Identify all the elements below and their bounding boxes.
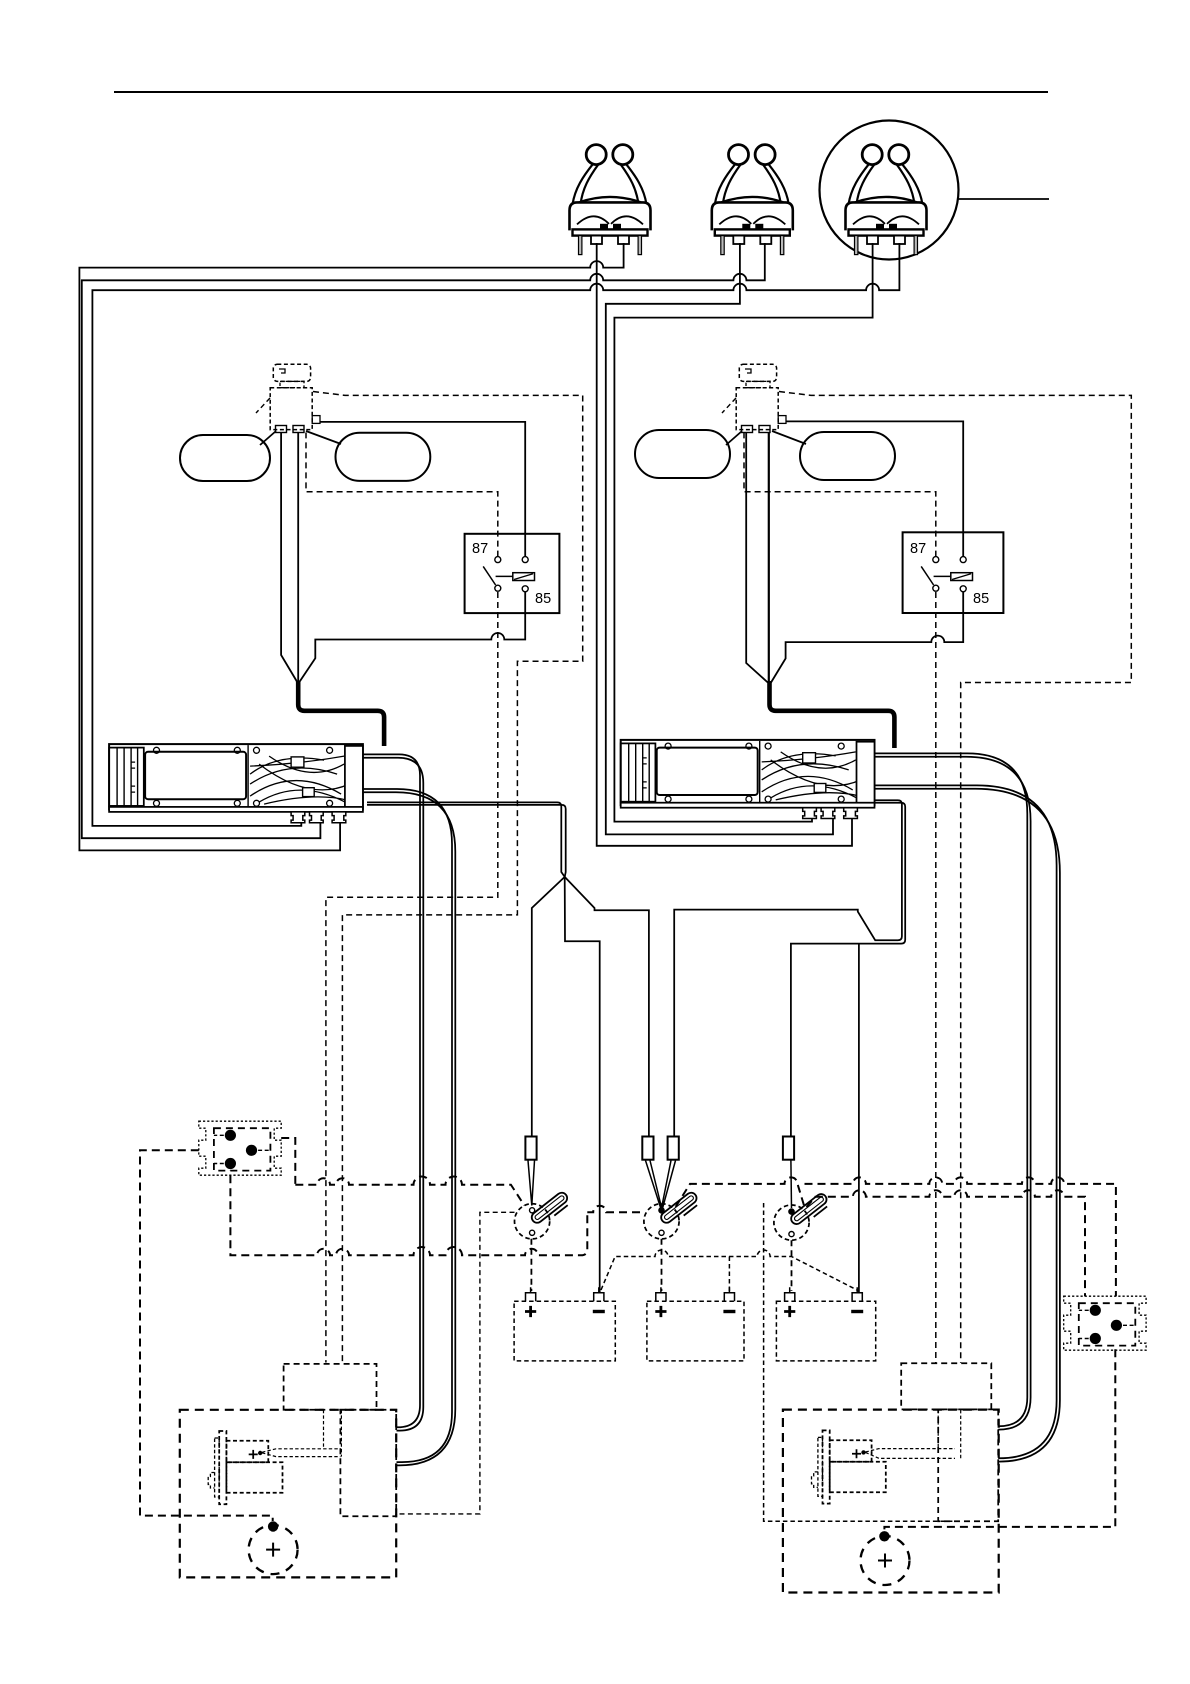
engine box (right) [783, 1410, 999, 1593]
connector X2 (right) feet [742, 426, 753, 433]
dashed wire: key switch 3 output to battery 3 plus [791, 1240, 793, 1291]
wire: connector lead 2 down to junction (right) [768, 433, 770, 685]
control station 2 [712, 145, 793, 255]
connector X2 (left) neck [280, 381, 304, 387]
wire: relay pin 85 down, left into harness junction (right) [771, 592, 963, 683]
interface box (left engine) [284, 1364, 377, 1410]
wire: control3 left leg via x=614.4 down to right actuator gland 1 [614, 243, 872, 822]
fuse holder block (helm, left) [199, 1121, 281, 1175]
battery 3 [776, 1287, 875, 1361]
cable pair A from right actuator to engine (x=1027.3/1030.6) [875, 753, 1028, 1426]
circled plus (left engine) [249, 1525, 298, 1574]
dashed riser: key switch 1 feed down to starter area [396, 1212, 514, 1514]
actuator unit (left engine) [109, 744, 363, 823]
wire: control3 right leg to left side loop (y=290.2 / x=92.4 / y=825.9) [92, 243, 899, 826]
dashed feed from left fuse block to engine positive (x=140) [140, 1150, 273, 1521]
dashed wire: key switch 2 output to battery 2 plus [661, 1239, 663, 1291]
dashed stub from connector top-left [256, 398, 270, 413]
page header rule [114, 91, 1048, 93]
thick harness cable into actuator (right) [770, 681, 895, 748]
starter motor (left engine) [208, 1431, 282, 1504]
supply pair from left actuator to Y-fork [367, 802, 565, 877]
wire: control1 left leg down between panels to right actuator gland 3 [597, 243, 852, 846]
wire: connector tab to relay pin 30 (right) [786, 421, 963, 556]
ignition bus 2: riser to key switch 2 [587, 1206, 645, 1213]
relay K2 pin 86 [933, 585, 939, 591]
svg-text:85: 85 [973, 591, 989, 607]
cable pair B from left actuator to engine (x=452/455.3) [363, 789, 452, 1462]
dashed wire: relay pin 87 up and to connector (right) [744, 433, 936, 557]
connector X2 (right) neck [746, 381, 770, 387]
Y-fork branch to key switch 1 [532, 877, 565, 1137]
lead from connector to left oval (right panel) [726, 431, 742, 445]
fuse F4 [783, 1137, 794, 1160]
actuator unit (right engine) [621, 740, 875, 819]
gauge cutout oval (left panel, left) [180, 435, 270, 481]
relay K2 arm link [934, 575, 951, 577]
dashed stub from connector top-left (right panel) [722, 398, 736, 413]
ignition bus 5: continuation over to right fuse block (top line) [805, 1177, 1116, 1296]
svg-text:87: 87 [472, 541, 488, 557]
callout circle around control 3 [820, 121, 959, 260]
relay K2 pin 87 [933, 557, 939, 563]
wire: connector tab to relay pin 30 [320, 422, 525, 557]
gauge cutout oval (right panel, right) [800, 432, 895, 480]
battery 2 [647, 1287, 744, 1361]
fuse F1 [525, 1137, 536, 1160]
wire: relay pin 85 down, left and into harness junction [300, 592, 526, 682]
lead from connector to left oval [260, 431, 276, 445]
dashed feed: right block bottom to right starter positive [884, 1349, 1115, 1531]
relay K1 pin 85 [522, 586, 528, 592]
svg-text:87: 87 [910, 541, 926, 557]
relay K2 coil [951, 573, 973, 581]
dashed wires: interface box to starter solenoid (right) [866, 1410, 961, 1458]
key switch 1 [515, 1191, 572, 1239]
gauge cutout oval (right panel, left) [635, 430, 730, 478]
Y-fork branch to battery 1 minus [565, 877, 600, 1292]
connector X2 (left) feet [276, 426, 287, 433]
connector X2 (right) right tab [778, 416, 786, 424]
dashed feed: left block bottom to starter area [230, 1175, 587, 1255]
dashed wires: interface box to starter solenoid (left) [262, 1410, 341, 1457]
dashed harness boundary loop (right panel) [779, 392, 1131, 1364]
fuse holder block (right) [1064, 1296, 1146, 1350]
key switch 2 [644, 1191, 701, 1239]
wire: fuses F2/F3 to key switch 2 [646, 1161, 676, 1209]
dashed wire: relay pin 86 down to engine box (right) [935, 592, 937, 1363]
relay K1 arm link [496, 575, 513, 577]
dashed harness boundary loop (left panel) [313, 392, 583, 1363]
relay K1 pin 86 [495, 585, 501, 591]
ignition bus 1: left block to key switch 1 [295, 1176, 524, 1205]
wire: fuse F4 to key switch 3 [790, 1161, 793, 1209]
wire: connector lead 1 down to junction (right) [746, 433, 768, 683]
battery positive node (right engine) [879, 1531, 889, 1541]
fuse F2 [642, 1137, 653, 1160]
dashed wire: relay pin 87 up and to connector [306, 433, 498, 557]
gauge cutout oval (left panel, right) [336, 433, 431, 481]
relay K2 pin 85 [960, 586, 966, 592]
battery positive node (left engine) [268, 1521, 278, 1531]
wire: control2 left leg via x=605.8 down to right actuator gland 2 [606, 243, 833, 834]
callout line from circle [958, 198, 1049, 200]
relay K1 pin 87 [495, 557, 501, 563]
wire: control1 right leg to left side loop (y=267.6 / x=79.4 / y=850.4) [79, 243, 623, 850]
control station 1 (main helm) [570, 145, 651, 255]
connector X2 (left) right tab [312, 416, 320, 424]
svg-text:85: 85 [535, 591, 551, 607]
wire: control2 right leg to left side loop (y=280.3 / x=81.8 / y=838.2) [82, 243, 765, 838]
control station 3 (flybridge, circled) [846, 145, 927, 255]
starter motor (right engine) [812, 1430, 886, 1503]
lead from connector to right oval [306, 431, 341, 444]
cable entry box (right) [938, 1409, 998, 1521]
negative link bus (fine dashed) [601, 1250, 858, 1291]
branch from supply pair to battery 3 minus [858, 944, 860, 1292]
wire: fuse F1 to key switch 1 [528, 1161, 535, 1206]
relay K2 (right) box [903, 532, 1004, 613]
Y-fork branch to fuse 2 / key switch 2 [565, 877, 649, 1137]
wire: connector lead 1 down to junction [281, 433, 297, 683]
connector X2 (right) body [736, 388, 778, 430]
relay K1 switch arm [483, 566, 495, 585]
dashed engine boundary (right), x=763.6 [764, 1203, 960, 1521]
key switch 3 [774, 1192, 831, 1240]
engine box (left) [180, 1410, 396, 1578]
dashed wire: relay pin 86 down to engine box (left) [326, 592, 498, 1363]
lead from connector to right oval (right panel) [772, 431, 806, 444]
relay K1 pin 30 [522, 557, 528, 563]
relay K2 switch arm [921, 566, 933, 585]
wire: connector lead 2 down to junction [297, 433, 299, 684]
fuse F3 [668, 1137, 679, 1160]
cable pair A from left actuator to engine (x=420/423.3) [363, 754, 420, 1427]
interface box (right engine) [901, 1363, 991, 1409]
cable pair B from right actuator to engine (x=1056.6/1059.9) [875, 785, 1057, 1458]
battery 1 [514, 1287, 615, 1361]
relay K1 coil [513, 573, 535, 581]
thick harness cable into actuator (left) [298, 681, 384, 746]
cable entry box (left) [340, 1410, 396, 1516]
dashed lead from left fuse block to ignition bus [281, 1138, 295, 1185]
connector X2 (right) plug cap [739, 364, 776, 381]
supply pair from right actuator down (x=901.9/905.2) [674, 800, 902, 1136]
ignition bus 4: key switch 3 to right fuse block [807, 1190, 1086, 1296]
ignition bus 3: key switch 2 to key switch 3 [676, 1177, 805, 1207]
dashed wire: key switch 1 output to battery 1 plus [530, 1239, 532, 1291]
relay K1 (left) box [465, 534, 560, 613]
connector X2 (left) plug cap [273, 364, 310, 381]
relay K2 pin 30 [960, 557, 966, 563]
circled plus (right engine) [861, 1536, 910, 1585]
connector X2 (left) body [270, 388, 312, 430]
dashed wire: battery 2 minus from negative bus [728, 1257, 730, 1292]
